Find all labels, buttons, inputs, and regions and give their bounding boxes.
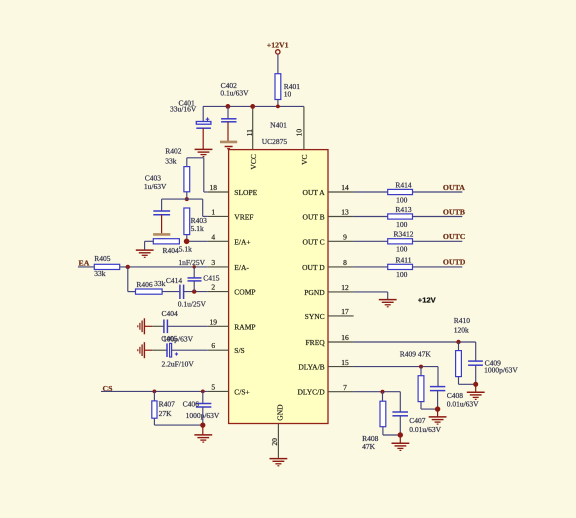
wire C407 bottom stub	[399, 416, 401, 435]
C405 plus sign	[175, 353, 178, 355]
pin 17 SYNC stub	[328, 315, 354, 317]
node R405/R406	[126, 265, 130, 269]
capacitor C408	[430, 386, 445, 388]
svg-text:VC: VC	[300, 154, 309, 164]
capacitor C415 top stub	[193, 267, 195, 278]
svg-text:R409 47K: R409 47K	[400, 349, 432, 358]
resistor R409	[418, 376, 424, 402]
svg-text:OUTB: OUTB	[443, 207, 465, 216]
node DLYC/D ground	[398, 432, 403, 437]
svg-text:OUTC: OUTC	[443, 232, 466, 241]
svg-text:C/S+: C/S+	[234, 387, 250, 396]
svg-text:1000p/63V: 1000p/63V	[484, 365, 518, 374]
node R403/R404/pin4	[184, 239, 190, 245]
pin 4 E/A+ stub	[208, 240, 229, 242]
svg-text:16: 16	[341, 333, 349, 342]
svg-text:C404: C404	[162, 309, 179, 318]
wire pin16 row	[354, 341, 476, 343]
svg-text:R410: R410	[454, 316, 471, 325]
svg-text:C407: C407	[409, 416, 426, 425]
wire R413 to net label	[413, 216, 463, 218]
svg-text:10: 10	[284, 90, 292, 99]
resistor R413	[388, 214, 413, 219]
svg-text:R405: R405	[94, 254, 111, 263]
svg-text:100: 100	[396, 270, 408, 279]
capacitor C401 top plate	[196, 122, 211, 125]
resistor R407	[152, 401, 157, 418]
wire R407 top stub	[153, 391, 155, 401]
capacitor C409	[468, 360, 483, 362]
wire R403 bottom	[186, 235, 188, 242]
wire pin1 jog vertical	[202, 199, 204, 216]
svg-text:E/A+: E/A+	[234, 237, 250, 246]
svg-text:1nF/25V: 1nF/25V	[178, 258, 205, 267]
wire C403 top stub	[161, 199, 163, 211]
svg-text:RAMP: RAMP	[234, 322, 255, 331]
wire pin4 row	[187, 240, 208, 242]
capacitor C405 right plate	[170, 343, 172, 357]
pin 16 FREQ stub	[328, 341, 354, 343]
wire bus to C402	[227, 106, 229, 118]
svg-text:5.1k: 5.1k	[179, 244, 192, 253]
wire R404 to ground	[144, 241, 146, 250]
svg-text:19: 19	[210, 317, 218, 326]
wire to pin 18	[204, 191, 208, 193]
wire R411 to net label	[413, 266, 463, 268]
pin 11 VCC stub	[252, 106, 254, 149]
svg-text:+12V1: +12V1	[267, 41, 289, 50]
wire pin15 row	[354, 366, 438, 368]
pin 3 E/A- stub	[208, 266, 229, 268]
wire C402 to ground	[227, 122, 229, 141]
wire ground to C405 (red part)	[144, 349, 152, 351]
svg-text:0.1u/63V: 0.1u/63V	[220, 89, 249, 98]
resistor R404	[153, 239, 179, 244]
wire R408 bottom stub	[382, 427, 384, 435]
svg-text:C415: C415	[203, 274, 220, 283]
svg-text:DLYA/B: DLYA/B	[298, 363, 324, 372]
wire pin12 ground stub	[387, 292, 389, 300]
wire R402 bottom	[186, 192, 188, 199]
wire C408 bottom stub	[437, 391, 439, 410]
resistor R402	[184, 167, 190, 192]
svg-text:R414: R414	[395, 180, 412, 189]
svg-text:OUTA: OUTA	[443, 183, 465, 192]
pin 13 OUT B stub	[328, 216, 354, 218]
svg-text:0.1u/25V: 0.1u/25V	[178, 300, 207, 309]
capacitor C401 plus sign	[206, 118, 210, 120]
ground below C401	[195, 148, 213, 150]
resistor R403	[184, 208, 190, 235]
svg-text:4: 4	[211, 232, 215, 241]
wire down to R406	[127, 267, 129, 292]
wire R408 top stub	[382, 392, 384, 402]
wire bus to C401	[202, 106, 204, 121]
resistor R405	[94, 264, 119, 269]
VCC bus wire	[203, 105, 304, 107]
svg-text:DLYC/D: DLYC/D	[298, 388, 326, 397]
svg-text:E/A-: E/A-	[234, 263, 249, 272]
svg-text:33k: 33k	[94, 269, 106, 278]
resistor R414	[388, 189, 413, 194]
wire R409 bottom stub	[420, 402, 422, 410]
svg-text:0.01u/63V: 0.01u/63V	[447, 400, 479, 409]
ground below C407	[392, 442, 410, 444]
wire pin1 jog horizontal	[203, 215, 208, 217]
svg-text:VCC: VCC	[249, 154, 258, 169]
svg-text:7: 7	[343, 383, 347, 392]
wire ground foot down	[203, 158, 205, 192]
wire pin to R3412	[354, 240, 388, 242]
svg-text:20: 20	[270, 438, 279, 446]
wire to CS ground	[202, 425, 204, 435]
pin 20 GND stub	[277, 424, 279, 458]
svg-text:GND: GND	[276, 404, 285, 421]
wire R402 top to ground foot	[187, 157, 204, 159]
svg-text:R413: R413	[395, 205, 412, 214]
capacitor C407	[392, 411, 408, 413]
svg-text:OUT C: OUT C	[303, 237, 325, 246]
wire R410 to C409 foot	[459, 383, 476, 385]
op-amp U1: IC N401 UC2875 body	[229, 150, 328, 424]
svg-text:R407: R407	[159, 400, 176, 409]
node R401/bus	[276, 105, 280, 109]
svg-text:3: 3	[211, 258, 215, 267]
resistor R408	[380, 401, 386, 427]
svg-text:14: 14	[341, 183, 349, 192]
ground at pin 20	[270, 458, 288, 460]
wire R3412 to net label	[413, 240, 463, 242]
pin 9 OUT C stub	[328, 240, 354, 242]
svg-text:0.01u/63V: 0.01u/63V	[409, 425, 441, 434]
wire R408 to C407 foot	[383, 434, 400, 436]
wire R402 top stub	[186, 158, 188, 167]
wire R405 to pin3	[120, 266, 208, 268]
pin 5 C/S+ stub	[208, 390, 229, 392]
svg-text:R411: R411	[396, 255, 412, 264]
wire node to C403	[162, 198, 203, 200]
svg-text:33k: 33k	[154, 279, 166, 288]
wire pin to R413	[354, 216, 388, 218]
svg-text:R406: R406	[136, 280, 153, 289]
node C401/bus	[226, 104, 231, 109]
svg-text:15: 15	[341, 358, 349, 367]
svg-text:12: 12	[341, 283, 349, 292]
svg-text:VREF: VREF	[234, 212, 253, 221]
svg-text:9: 9	[343, 233, 347, 242]
capacitor C401 bottom plate	[196, 127, 211, 129]
svg-text:1u/63V: 1u/63V	[144, 182, 167, 191]
pin 7 DLYC/D stub	[328, 391, 354, 393]
node R409 top	[419, 365, 423, 369]
svg-text:R404: R404	[163, 246, 180, 255]
ground below R404	[136, 249, 154, 251]
svg-text:C414: C414	[166, 276, 183, 285]
svg-text:11: 11	[245, 129, 254, 136]
wire pin to R411	[354, 266, 388, 268]
resistor R410	[456, 351, 462, 377]
resistor R3412	[388, 239, 413, 244]
svg-text:33k: 33k	[165, 156, 177, 165]
wire +12V1 to R401	[277, 54, 279, 73]
resistor R406	[136, 289, 163, 294]
wire CS to pin5	[101, 390, 208, 392]
ground below C406	[194, 434, 212, 436]
wire C405 to pin6	[172, 349, 208, 351]
wire C408 top stub	[437, 367, 439, 387]
wire R401 to VCC bus	[277, 100, 279, 107]
svg-text:OUT A: OUT A	[303, 188, 326, 197]
svg-text:1: 1	[211, 207, 215, 216]
capacitor C414	[179, 285, 181, 299]
wire to FREQ ground	[475, 384, 477, 392]
ground below C408	[429, 416, 447, 418]
svg-text:OUTD: OUTD	[443, 258, 466, 267]
pin 2 COMP stub	[208, 291, 229, 293]
svg-text:17: 17	[341, 307, 349, 316]
capacitor C405 left plate	[166, 343, 168, 357]
svg-text:C405: C405	[161, 334, 178, 343]
svg-text:OUT D: OUT D	[302, 263, 325, 272]
svg-text:FREQ: FREQ	[306, 338, 326, 347]
node FREQ ground	[473, 382, 478, 387]
capacitor C402	[221, 118, 236, 120]
wire C407 top stub	[399, 392, 401, 412]
pin 19 RAMP stub	[208, 325, 229, 327]
pin 15 DLYA/B stub	[328, 366, 354, 368]
node R410 top	[456, 340, 460, 344]
svg-text:100: 100	[396, 195, 408, 204]
sideways ground at C404	[143, 318, 145, 334]
wire R410 top stub	[458, 342, 460, 351]
capacitor C404	[163, 320, 165, 334]
node C415 bottom	[192, 289, 196, 293]
svg-text:R3412: R3412	[393, 230, 413, 239]
pin 10 VC stub	[303, 106, 305, 149]
svg-text:2.2uF/10V: 2.2uF/10V	[162, 360, 195, 369]
wire R407 bottom stub	[153, 418, 155, 425]
capacitor C403	[153, 210, 170, 212]
ground at pin 12	[379, 299, 397, 301]
svg-text:5.1k: 5.1k	[191, 224, 204, 233]
tan ground below C403	[153, 233, 170, 236]
pin 18 SLOPE stub	[208, 191, 229, 193]
pin 1 VREF stub	[208, 215, 229, 217]
wire R409 top stub	[420, 367, 422, 376]
svg-text:6: 6	[211, 341, 215, 350]
wire bottom CS row	[154, 424, 202, 426]
wire EA to R405	[78, 266, 94, 268]
wire to DLYA/B ground	[437, 409, 439, 417]
wire R406 to C414	[162, 291, 179, 293]
svg-text:33u/16V: 33u/16V	[170, 105, 197, 114]
wire C409 bottom stub	[475, 365, 477, 384]
svg-text:27K: 27K	[159, 409, 173, 418]
pin 12 PGND stub	[328, 291, 354, 293]
svg-text:18: 18	[210, 183, 218, 192]
svg-text:C406: C406	[183, 399, 200, 408]
wire R414 to net label	[413, 191, 463, 193]
node R408 top	[381, 390, 385, 394]
svg-text:13: 13	[341, 208, 349, 217]
wire ground to C405 (dark part)	[152, 349, 167, 351]
node VCC pin/bus	[250, 104, 255, 109]
wire R410 bottom stub	[458, 377, 460, 385]
node CS ground	[200, 423, 205, 428]
capacitor C415 bottom stub	[193, 281, 195, 292]
svg-text:S/S: S/S	[234, 346, 244, 355]
pin 8 OUT D stub	[328, 266, 354, 268]
svg-text:100: 100	[396, 220, 408, 229]
node C415 top	[193, 265, 196, 268]
node R402/R403/VREF	[185, 197, 189, 201]
svg-text:UC2875: UC2875	[262, 137, 288, 146]
node C406 top	[201, 390, 205, 394]
pin 14 OUT A stub	[328, 191, 354, 193]
svg-text:OUT B: OUT B	[303, 213, 325, 222]
wire C406 top stub	[202, 391, 204, 403]
svg-text:SYNC: SYNC	[305, 312, 325, 321]
tan ground below C402	[220, 141, 237, 144]
svg-text:PGND: PGND	[304, 288, 325, 297]
power port circle	[276, 50, 280, 54]
node R407 top	[153, 390, 157, 394]
svg-text:SLOPE: SLOPE	[234, 188, 257, 197]
wire C406 bottom stub	[202, 407, 204, 425]
svg-text:8: 8	[343, 258, 347, 267]
ground below C409	[467, 391, 485, 393]
wire pin to R414	[354, 191, 388, 193]
wire C403 to ground	[161, 215, 163, 234]
wire C401 to ground	[202, 128, 204, 149]
wire C414 to pin2	[184, 291, 208, 293]
svg-text:120k: 120k	[454, 325, 469, 334]
node DLYA/B ground	[435, 406, 440, 411]
svg-text:COMP: COMP	[234, 288, 255, 297]
wire C409 top stub	[475, 342, 477, 361]
capacitor C415	[188, 277, 202, 279]
resistor R411	[388, 264, 413, 269]
svg-text:5: 5	[211, 382, 215, 391]
wire R409 to C408 foot	[421, 408, 438, 410]
svg-text:100: 100	[396, 245, 408, 254]
svg-text:10: 10	[295, 129, 304, 137]
resistor R401	[275, 74, 281, 100]
wire to DLYC/D ground	[399, 435, 401, 443]
svg-text:R402: R402	[165, 147, 182, 156]
sideways ground at C405	[143, 342, 145, 358]
wire ground to C404 (dark part)	[152, 325, 164, 327]
wire to R406 left	[128, 291, 136, 293]
svg-text:C403: C403	[145, 173, 162, 182]
pin 6 S/S stub	[208, 349, 229, 351]
wire R404 left	[145, 240, 154, 242]
wire C404 to pin19	[167, 325, 207, 327]
svg-text:+12V: +12V	[418, 296, 437, 305]
svg-text:47K: 47K	[362, 442, 376, 451]
wire pin12 to ground	[354, 291, 388, 293]
svg-text:2: 2	[211, 283, 215, 292]
wire pin7 row	[354, 391, 401, 393]
capacitor C406	[196, 403, 212, 405]
svg-text:N401: N401	[270, 121, 287, 130]
wire ground to C404 (red part)	[144, 325, 152, 327]
